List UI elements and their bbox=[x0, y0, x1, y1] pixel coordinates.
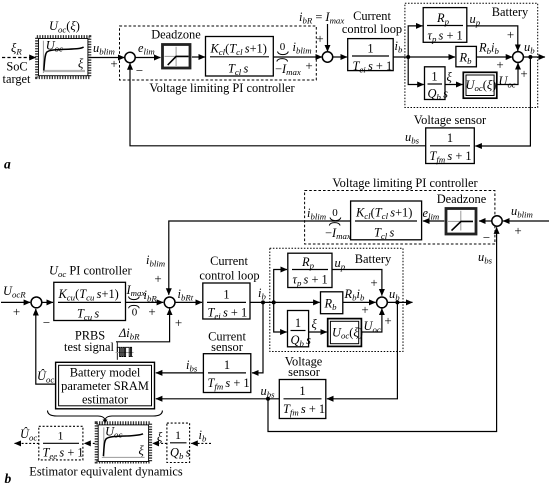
svg-text:control loop: control loop bbox=[199, 269, 259, 283]
wire PRBS to sum5 bottom bbox=[116, 309, 170, 342]
wire Uoc to sum3 bottom bbox=[497, 63, 518, 85]
svg-text:Tfm s + 1: Tfm s + 1 bbox=[430, 149, 472, 165]
curve Uoc(xi) bottom bbox=[103, 434, 143, 456]
node junction dot u_b (b) bbox=[395, 300, 399, 304]
icon PRBS waveform bbox=[116, 342, 118, 359]
svg-text:+: + bbox=[316, 31, 323, 46]
label saturation 0 lower (Kcu) bbox=[129, 305, 140, 308]
wire i_b into battery (b) bbox=[250, 301, 320, 303]
block PI controller Kcl (b) bbox=[351, 201, 422, 240]
brace under estimator bbox=[48, 411, 163, 420]
wire sum1 to deadzone bbox=[135, 57, 161, 59]
block Rb bbox=[456, 46, 477, 66]
svg-text:1: 1 bbox=[299, 384, 305, 398]
node junction dot u_bs bbox=[266, 397, 270, 401]
svg-text:+: + bbox=[148, 304, 155, 319]
sum junction SB1 bbox=[492, 216, 502, 226]
svg-text:1: 1 bbox=[431, 70, 437, 84]
block current sensor 1/(Tfm s+1) bbox=[203, 354, 250, 393]
block Rb (b) bbox=[321, 292, 343, 314]
svg-text:Voltage limiting PI controller: Voltage limiting PI controller bbox=[332, 176, 478, 190]
dotted box Battery (b) bbox=[270, 248, 403, 351]
wire u_blim to sum1 bbox=[89, 57, 125, 59]
svg-text:Estimator equivalent dynamics: Estimator equivalent dynamics bbox=[29, 465, 183, 479]
wire Kcu out to sum5 with saturation bbox=[126, 301, 164, 303]
wire branch down to Qb block bbox=[408, 57, 424, 85]
svg-text:0: 0 bbox=[280, 41, 286, 53]
svg-text:Current: Current bbox=[353, 9, 391, 23]
svg-text:sensor: sensor bbox=[211, 340, 244, 354]
wire brace to equivalent dynamics arrow bbox=[104, 419, 106, 421]
wire u_p to sum3 top bbox=[467, 26, 518, 51]
svg-text:Tei s + 1: Tei s + 1 bbox=[208, 306, 248, 322]
block Uoc(xi) double box (b) bbox=[328, 319, 362, 347]
block battery model parameter SRAM estimator bbox=[56, 362, 155, 409]
block PI controller Kcl(Tcl s+1)/Tcl s bbox=[206, 37, 274, 77]
wire u_bs feedback up to sumB1 bbox=[268, 227, 497, 431]
block Rp/(tau_p s+1) bbox=[423, 8, 467, 43]
block 1/(Qb s) (b) bbox=[288, 311, 309, 347]
block Rp/(tau_p s+1) (b) bbox=[288, 253, 332, 287]
DIAGRAM-A bbox=[2, 3, 545, 171]
svg-text:ξ: ξ bbox=[447, 70, 453, 84]
sum junction S2 bbox=[322, 52, 332, 62]
svg-text:+: + bbox=[507, 27, 514, 42]
dashed box voltage limiting PI controller (b) bbox=[305, 191, 495, 245]
svg-text:Deadzone: Deadzone bbox=[437, 192, 487, 206]
block deadzone DZ2 bbox=[446, 209, 476, 235]
wire PI out to sum2 with saturation marks bbox=[273, 56, 322, 58]
sum junction S6 bbox=[377, 297, 388, 308]
block Uoc(xi) battery double box bbox=[463, 72, 497, 98]
wire Uoc hat feedback to sum4 bottom bbox=[36, 309, 56, 384]
wire dashed curvebox to Tee box bbox=[84, 442, 95, 444]
svg-text:sensor: sensor bbox=[288, 365, 321, 379]
svg-text:Voltage sensor: Voltage sensor bbox=[414, 113, 487, 127]
node junction dot i_b sensor branch bbox=[261, 300, 265, 304]
wire u_b down to voltage sensor (b) bbox=[327, 302, 398, 398]
svg-text:1: 1 bbox=[367, 42, 373, 56]
wire Rb to sum6 bbox=[343, 301, 376, 303]
wire u_p to sum6 top bbox=[332, 270, 382, 296]
svg-text:+: + bbox=[496, 57, 503, 72]
svg-text:1: 1 bbox=[224, 358, 230, 372]
label saturation -Imax lower (b PI) bbox=[329, 223, 340, 226]
svg-text:+: + bbox=[305, 58, 312, 73]
svg-text:Battery: Battery bbox=[492, 5, 529, 19]
node junction dot i_b battery branch bbox=[272, 300, 276, 304]
sum junction S1 bbox=[125, 52, 135, 62]
svg-text:+: + bbox=[154, 271, 161, 286]
wire xi to Uoc block (b) bbox=[309, 331, 327, 333]
wire u_bs feedback to sum1 bottom bbox=[130, 63, 426, 146]
svg-text:ξ: ξ bbox=[139, 444, 145, 458]
svg-text:Tee s + 1: Tee s + 1 bbox=[43, 446, 84, 462]
wire dashed Qb to curvebox bbox=[153, 442, 167, 444]
block Uoc(xi) map (bottom, hatched) bbox=[96, 423, 150, 462]
wire deadzone to PI block bbox=[192, 56, 205, 58]
block current control loop (b) bbox=[203, 283, 250, 319]
svg-text:1: 1 bbox=[223, 288, 229, 302]
wire U_ocR into sum4 bbox=[1, 301, 30, 303]
wire sumB1 to deadzone (b) bbox=[479, 220, 492, 222]
block voltage sensor (b) bbox=[279, 380, 326, 419]
block Uoc(xi) SoC-to-voltage map (hatched box) bbox=[37, 37, 90, 78]
wire u_b output arrow (b) bbox=[387, 301, 412, 303]
wire sum5 to current control loop (b) bbox=[175, 301, 202, 303]
curve Uoc(xi) bbox=[44, 47, 84, 71]
wire u_b output bbox=[523, 56, 545, 58]
block PI controller Kcu(Tcu s+1)/Tcu s bbox=[54, 282, 126, 320]
svg-text:parameter SRAM: parameter SRAM bbox=[61, 379, 149, 393]
svg-text:a: a bbox=[4, 157, 11, 172]
wire dashed i_b into Qb (bottom) bbox=[191, 442, 211, 444]
block voltage sensor 1/(Tfm s+1) bbox=[426, 128, 475, 164]
svg-text:+: + bbox=[361, 302, 368, 317]
svg-text:+: + bbox=[514, 223, 521, 238]
block current control loop 1/(Tei s+1) bbox=[348, 39, 394, 71]
svg-text:−: − bbox=[43, 315, 50, 330]
wire Uoc to sum6 bottom bbox=[361, 309, 382, 333]
block 1/(Qb s) bbox=[425, 67, 446, 100]
wire i_b branch down to current sensor bbox=[252, 302, 263, 373]
wire deadzone to Kcl block (b) bbox=[423, 220, 444, 222]
svg-text:Current: Current bbox=[210, 254, 248, 268]
sum junction S4 bbox=[31, 297, 42, 308]
svg-text:+: + bbox=[175, 315, 182, 330]
wire i_bR=Imax down into sum2 bbox=[327, 24, 329, 52]
svg-text:b: b bbox=[5, 471, 12, 486]
svg-text:Voltage limiting PI controller: Voltage limiting PI controller bbox=[149, 81, 295, 95]
sum junction S5 bbox=[164, 297, 175, 308]
block 1/(Tee s+1) dashed bbox=[39, 426, 83, 460]
DIAGRAM-B bbox=[1, 176, 549, 486]
wire branch up to Rp block bbox=[408, 26, 422, 57]
svg-text:Battery model: Battery model bbox=[70, 366, 141, 380]
svg-text:1: 1 bbox=[58, 429, 64, 443]
svg-text:ξ: ξ bbox=[78, 57, 84, 71]
svg-text:Tei s + 1: Tei s + 1 bbox=[353, 59, 393, 75]
svg-text:target: target bbox=[3, 72, 32, 86]
sum junction S3 battery bbox=[513, 52, 524, 63]
svg-text:test signal: test signal bbox=[64, 340, 114, 354]
wire u_b down into voltage sensor bbox=[475, 57, 530, 146]
dotted box Battery bbox=[405, 3, 538, 107]
svg-text:ξ: ξ bbox=[312, 317, 318, 331]
wire i_b into battery bbox=[393, 56, 455, 58]
wire Rb to sum3 bbox=[476, 56, 512, 58]
svg-text:Deadzone: Deadzone bbox=[151, 28, 201, 42]
svg-text:−: − bbox=[483, 230, 490, 245]
wire branch up to Rp (b) bbox=[274, 270, 287, 303]
label saturation -Imax lower limit bbox=[277, 59, 288, 62]
wire u_bs to estimator bbox=[156, 398, 279, 400]
svg-text:−: − bbox=[136, 63, 143, 78]
svg-text:1: 1 bbox=[295, 316, 301, 330]
svg-text:+: + bbox=[110, 56, 117, 71]
svg-text:Tfm s + 1: Tfm s + 1 bbox=[283, 402, 325, 418]
svg-text:1: 1 bbox=[175, 428, 181, 442]
wire i_blim from Kcl to sum5 bbox=[169, 221, 351, 295]
svg-text:Battery: Battery bbox=[355, 252, 392, 266]
svg-text:0: 0 bbox=[332, 207, 338, 219]
node junction dot on i_b bbox=[406, 55, 410, 59]
wire sum4 to Kcu block bbox=[42, 301, 53, 303]
wire sum2 to current control loop bbox=[333, 56, 348, 58]
svg-text:estimator: estimator bbox=[82, 393, 129, 407]
svg-text:1: 1 bbox=[447, 131, 453, 145]
wire xi to Uoc block bbox=[445, 84, 463, 86]
wire dashed output arrow bottom left bbox=[15, 442, 39, 444]
dashed box voltage limiting PI controller bbox=[120, 26, 317, 80]
axes of Uoc(xi) map bbox=[42, 41, 44, 73]
block 1/(Qb s) dashed (bottom) bbox=[167, 423, 190, 462]
svg-text:+: + bbox=[520, 66, 527, 81]
svg-text:control loop: control loop bbox=[342, 22, 402, 36]
svg-text:+: + bbox=[370, 275, 377, 290]
svg-text:+: + bbox=[13, 304, 20, 319]
node junction dot on u_b bbox=[528, 55, 532, 59]
svg-text:ξ: ξ bbox=[157, 430, 163, 444]
wire i_bs to estimator bbox=[156, 372, 204, 374]
svg-text:+: + bbox=[384, 313, 391, 328]
wire branch down to Qb (b) bbox=[274, 302, 287, 332]
svg-text:0: 0 bbox=[132, 307, 138, 319]
wire xi_R dashed input arrow bbox=[2, 57, 36, 59]
wire u_blim into sumB1 bbox=[503, 220, 549, 222]
svg-text:Tfm s + 1: Tfm s + 1 bbox=[208, 376, 250, 392]
block deadzone DZ1 bbox=[163, 45, 191, 69]
